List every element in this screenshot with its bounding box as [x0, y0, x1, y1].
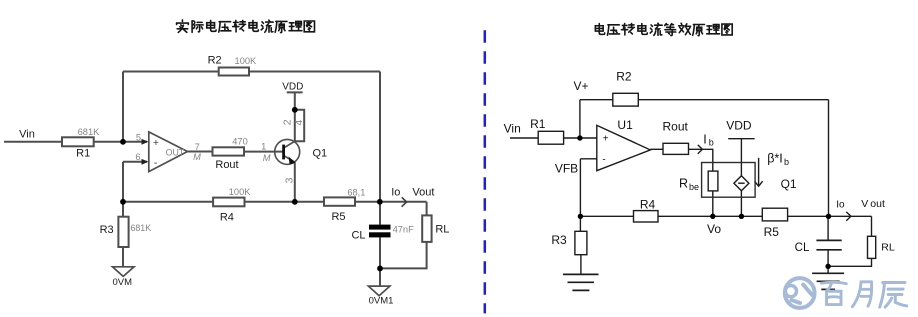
resistor R5 right — [762, 208, 787, 221]
wire Rbe bottom — [712, 191, 714, 216]
svg-text:0VM1: 0VM1 — [369, 295, 394, 306]
arrowhead emitter — [289, 157, 296, 165]
svg-text:U1: U1 — [617, 118, 633, 132]
ground 0VM1 — [368, 286, 390, 296]
arrowhead pin 5 — [142, 139, 149, 145]
svg-text:2: 2 — [282, 119, 294, 125]
svg-text:R4: R4 — [640, 197, 656, 211]
svg-text:4: 4 — [293, 120, 305, 126]
svg-text:681K: 681K — [131, 223, 152, 233]
values and pins gray — [78, 56, 414, 234]
svg-text:Rout: Rout — [215, 159, 238, 171]
arrowhead pin 6 — [142, 159, 149, 165]
resistor RL right — [868, 236, 876, 258]
svg-text:Q1: Q1 — [312, 148, 327, 160]
svg-text:R5: R5 — [764, 225, 780, 239]
wire RL bottom right — [828, 258, 871, 266]
wire collector pin 4 loop — [295, 110, 304, 141]
svg-text:V+: V+ — [573, 79, 588, 93]
svg-text:VDD: VDD — [282, 82, 303, 93]
svg-text:be: be — [689, 182, 699, 192]
watermark 百 — [821, 282, 846, 304]
title left: 实际电压转电流原理图 — [177, 20, 315, 33]
wire RL bottom — [380, 242, 427, 269]
resistor Rout — [213, 147, 245, 155]
svg-text:VFB: VFB — [555, 161, 578, 175]
svg-text:R1: R1 — [76, 147, 90, 159]
svg-text:68,1: 68,1 — [347, 188, 365, 198]
svg-text:+: + — [603, 134, 609, 145]
svg-text:I: I — [703, 133, 706, 147]
svg-text:out: out — [870, 198, 885, 210]
svg-text:470: 470 — [232, 137, 248, 147]
node dot V+ — [577, 135, 582, 140]
labels right circuit — [504, 70, 895, 254]
svg-text:R1: R1 — [530, 117, 546, 131]
svg-text:R4: R4 — [220, 211, 234, 223]
wire source bottom — [740, 191, 742, 217]
node dot pin5 — [120, 139, 126, 145]
equivalent-model box Q1 — [702, 163, 756, 198]
svg-text:RL: RL — [435, 224, 449, 236]
ground earth left — [563, 273, 599, 275]
watermark logo — [785, 278, 815, 308]
wire output corner down — [871, 216, 873, 236]
wire Rout to Ib corner — [689, 149, 713, 171]
ground 0VM — [113, 267, 135, 277]
svg-text:+: + — [153, 137, 159, 149]
resistor R5 — [324, 197, 355, 205]
svg-text:R5: R5 — [331, 211, 345, 223]
current source beta Ib — [734, 176, 749, 191]
watermark 月 — [852, 282, 871, 307]
resistor Rout right — [663, 143, 689, 154]
capacitor CL right — [816, 239, 841, 241]
wire R5 to output node — [788, 215, 872, 217]
arrow beta Ib line — [758, 158, 760, 187]
wire R1 to op-amp pin 5 — [94, 141, 147, 143]
labels left circuit black — [19, 54, 449, 306]
wire R3 to ground — [122, 247, 124, 267]
power VDD — [294, 92, 296, 109]
svg-text:Rout: Rout — [663, 120, 689, 134]
svg-text:7: 7 — [195, 142, 200, 152]
wire Rout to base pin 1 — [244, 151, 284, 153]
svg-text:R2: R2 — [616, 70, 632, 84]
svg-text:M: M — [263, 153, 271, 163]
svg-text:Q1: Q1 — [781, 177, 797, 191]
wire CL bottom — [379, 237, 381, 286]
wire bottom row right — [580, 215, 762, 217]
divider dashed line — [484, 30, 487, 313]
wire output right corner down — [426, 202, 428, 216]
resistor R4 — [213, 198, 244, 207]
wire right vertical feedback — [379, 72, 381, 225]
node dot collector — [292, 107, 298, 113]
svg-text:CL: CL — [351, 230, 365, 242]
node dot CL bottom right — [825, 264, 830, 269]
wire op-amp output pin 7 — [188, 151, 213, 153]
wire op-amp output — [650, 148, 663, 150]
svg-text:Vo: Vo — [707, 222, 721, 236]
wire CL bottom right — [827, 250, 829, 273]
resistor R1 right — [538, 131, 563, 144]
wire Vin input — [4, 141, 62, 143]
arrow Io chevron right — [846, 212, 851, 221]
wire Vin input right — [510, 137, 538, 139]
transistor base bar — [282, 145, 285, 160]
wire right vertical — [828, 100, 830, 217]
wire collector pin 2 — [294, 110, 296, 141]
svg-text:V: V — [861, 198, 868, 210]
svg-text:RL: RL — [881, 242, 895, 254]
svg-text:47nF: 47nF — [393, 225, 415, 235]
wire pin6 down to node — [122, 162, 124, 202]
op-amp U1 — [597, 125, 651, 170]
title right: 电压转电流等效原理图 — [595, 23, 732, 35]
svg-text:β*I: β*I — [767, 151, 783, 165]
ground earth right — [812, 272, 844, 274]
wire top feedback row — [123, 71, 380, 73]
svg-text:5: 5 — [136, 132, 141, 142]
resistor R2 right — [613, 93, 639, 106]
resistor R4 right — [634, 211, 659, 222]
resistor RL — [422, 215, 431, 242]
op-amp U — [149, 132, 188, 172]
watermark 辰 — [880, 283, 907, 308]
svg-text:0VM: 0VM — [113, 277, 133, 288]
power VDD right — [728, 138, 754, 140]
svg-text:CL: CL — [795, 242, 810, 254]
svg-text:R3: R3 — [100, 224, 114, 236]
svg-text:Io: Io — [391, 187, 400, 199]
node dot CL bottom — [377, 266, 383, 272]
svg-text:b: b — [709, 138, 714, 148]
wire op-amp minus — [580, 158, 596, 160]
svg-text:VDD: VDD — [726, 119, 752, 133]
node dot Io — [826, 214, 831, 219]
wire R3 bottom right — [580, 255, 582, 275]
wire feedback vertical left — [122, 72, 124, 142]
wire emitter pin 3 — [294, 162, 296, 201]
svg-text:100K: 100K — [235, 56, 258, 66]
svg-text:Vout: Vout — [412, 187, 434, 199]
wire VFB vertical — [579, 159, 581, 217]
node dot output — [377, 199, 383, 205]
wire op-amp pin 6 — [123, 161, 147, 163]
wire CL top right — [827, 216, 829, 240]
wire R3 top — [122, 202, 124, 217]
svg-text:1: 1 — [261, 142, 266, 152]
svg-text:6: 6 — [135, 152, 140, 162]
svg-text:-: - — [602, 154, 605, 165]
svg-text:R3: R3 — [551, 233, 567, 247]
arrow Io left — [402, 197, 407, 206]
wire R5 to output node — [355, 201, 427, 203]
svg-text:3: 3 — [283, 177, 295, 183]
node dot emitter — [292, 199, 298, 205]
wire top row right — [580, 99, 829, 101]
node dot R3 — [120, 199, 126, 205]
resistor R1 — [62, 137, 94, 146]
resistor R2 — [219, 68, 249, 76]
svg-text:Vin: Vin — [504, 122, 521, 136]
wire R1 to op-amp plus — [564, 137, 597, 139]
svg-text:Io: Io — [836, 200, 845, 211]
resistor R3 right — [575, 231, 587, 254]
svg-text:OUT: OUT — [166, 147, 185, 157]
wire V+ vertical — [579, 100, 581, 138]
svg-text:681K: 681K — [78, 127, 101, 137]
svg-text:R2: R2 — [208, 54, 222, 66]
svg-text:b: b — [784, 157, 789, 167]
svg-text:R: R — [679, 177, 688, 191]
wire bottom row — [123, 201, 324, 203]
node dot source bottom — [739, 214, 744, 219]
arrow Ib chevron — [698, 145, 703, 154]
transistor Q1 — [275, 139, 300, 164]
capacitor CL — [369, 225, 391, 238]
svg-text:-: - — [154, 157, 158, 169]
node dot Vo — [710, 214, 715, 219]
node dot VFB bottom — [578, 214, 583, 219]
svg-text:Vin: Vin — [19, 128, 35, 140]
resistor R3 — [118, 217, 128, 247]
wire R3 top right — [579, 216, 581, 231]
svg-text:M: M — [193, 152, 201, 162]
svg-text:100K: 100K — [229, 187, 252, 197]
resistor Rbe — [708, 171, 718, 191]
